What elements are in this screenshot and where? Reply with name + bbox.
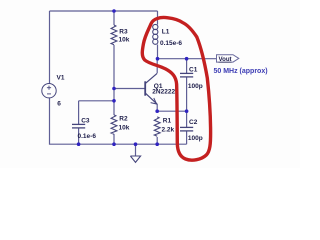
wire emitter to C2 bbox=[157, 110, 186, 112]
svg-text:2N2222: 2N2222 bbox=[152, 89, 175, 96]
wire C2 bottom lead bbox=[186, 131, 188, 144]
node C3 bottom junction bbox=[77, 142, 81, 146]
labels bbox=[57, 29, 203, 142]
wire left rail top bbox=[49, 11, 51, 84]
wire collector vertical bbox=[156, 59, 158, 73]
node base junction bbox=[112, 87, 116, 91]
svg-text:L1: L1 bbox=[162, 29, 170, 36]
wire left rail bottom bbox=[50, 98, 79, 144]
svg-text:C3: C3 bbox=[81, 117, 90, 124]
Vout net flag bbox=[217, 55, 239, 63]
svg-text:10k: 10k bbox=[119, 125, 130, 132]
node emitter junction bbox=[155, 109, 159, 113]
resistor R3 bbox=[111, 25, 117, 45]
svg-text:0.1e-6: 0.1e-6 bbox=[78, 133, 97, 140]
node ground junction bbox=[134, 142, 138, 146]
svg-text:R2: R2 bbox=[119, 116, 128, 123]
svg-text:50 MHz (approx): 50 MHz (approx) bbox=[214, 68, 268, 75]
wire C3 branch bbox=[79, 100, 114, 102]
node R1 bottom junction bbox=[155, 142, 159, 146]
wire ground stub bbox=[135, 144, 137, 156]
svg-text:R3: R3 bbox=[119, 29, 128, 36]
node top rail R3 junction bbox=[112, 9, 116, 13]
inductor L1 bbox=[153, 24, 158, 44]
wire R3 to base node bbox=[113, 45, 115, 115]
wire R1 bottom lead bbox=[156, 137, 158, 144]
red annotation loop bbox=[142, 17, 210, 160]
junction dots bbox=[77, 9, 189, 146]
svg-text:10k: 10k bbox=[119, 37, 130, 44]
wire C3 top lead bbox=[78, 101, 80, 124]
wire C1 top lead bbox=[186, 59, 188, 73]
wire C3 bottom lead bbox=[78, 128, 80, 144]
wire bottom rail bbox=[79, 143, 187, 145]
wire collector node to Vout bbox=[158, 58, 217, 60]
svg-text:6: 6 bbox=[57, 101, 61, 108]
svg-text:C2: C2 bbox=[189, 119, 198, 126]
wire C2 top lead bbox=[186, 111, 188, 127]
svg-text:100p: 100p bbox=[188, 135, 203, 142]
node collector L1 junction bbox=[156, 57, 160, 61]
capacitor C3 bbox=[72, 124, 85, 128]
ground bbox=[130, 156, 140, 162]
svg-text:Vout: Vout bbox=[219, 56, 232, 63]
wire R2 bottom lead bbox=[113, 134, 115, 144]
wire L1 top lead bbox=[157, 11, 159, 25]
resistor R2 bbox=[111, 115, 117, 134]
wire top rail bbox=[50, 10, 158, 12]
wire C1 bottom lead bbox=[186, 77, 188, 111]
node emitter C2 junction bbox=[185, 109, 189, 113]
svg-text:V1: V1 bbox=[57, 74, 65, 81]
node R2 bottom junction bbox=[112, 142, 116, 146]
node C3 junction bbox=[112, 99, 116, 103]
svg-text:2.2k: 2.2k bbox=[162, 127, 175, 134]
wire R3 branch vertical bbox=[113, 11, 115, 25]
svg-text:100p: 100p bbox=[188, 83, 203, 90]
wire emitter vertical bbox=[156, 104, 158, 111]
voltage source V1 bbox=[42, 84, 56, 98]
capacitor C1 bbox=[180, 73, 193, 77]
svg-text:0.15e-6: 0.15e-6 bbox=[160, 40, 182, 47]
resistor R1 bbox=[154, 117, 160, 136]
wire L1 bottom lead bbox=[157, 45, 159, 59]
transistor Q1 bbox=[145, 73, 157, 104]
capacitor C2 bbox=[180, 127, 193, 130]
node collector C1 junction bbox=[185, 57, 189, 61]
wire base horizontal bbox=[114, 88, 145, 90]
svg-text:C1: C1 bbox=[189, 66, 198, 73]
svg-text:R1: R1 bbox=[163, 117, 172, 124]
